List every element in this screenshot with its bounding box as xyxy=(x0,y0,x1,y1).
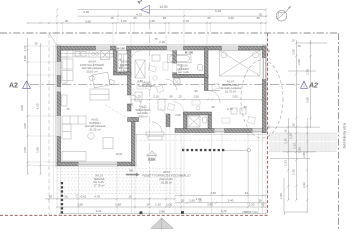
svg-text:2,70: 2,70 xyxy=(227,107,233,111)
BOUNDARY xyxy=(0,34,286,231)
svg-text:2,10: 2,10 xyxy=(153,95,159,99)
svg-text:2,08: 2,08 xyxy=(23,147,27,153)
svg-text:50: 50 xyxy=(49,195,53,199)
svg-text:20: 20 xyxy=(181,198,185,202)
tv board xyxy=(103,138,113,149)
wall left xyxy=(57,46,61,166)
svg-text:20,05 m²: 20,05 m² xyxy=(161,181,172,185)
svg-text:M 160: M 160 xyxy=(117,47,125,51)
door leaf lines xyxy=(131,91,220,105)
WINDOWS xyxy=(57,46,266,166)
window kitchen left xyxy=(57,62,61,75)
svg-text:2,05: 2,05 xyxy=(175,113,181,117)
svg-text:2,00: 2,00 xyxy=(23,55,27,61)
svg-text:2,88: 2,88 xyxy=(159,209,165,213)
svg-text:1,50: 1,50 xyxy=(193,95,199,99)
svg-text:3,60 m²: 3,60 m² xyxy=(138,114,148,118)
porch columns row xyxy=(182,149,224,151)
window gap bottom wall 2 xyxy=(253,129,263,133)
street pavement band xyxy=(269,133,337,152)
svg-text:40: 40 xyxy=(65,19,69,23)
hall small fixtures xyxy=(152,55,160,61)
svg-text:±0,00: ±0,00 xyxy=(116,152,123,156)
svg-text:25: 25 xyxy=(207,16,211,20)
DIMS-LEFT xyxy=(20,38,57,199)
WALLS xyxy=(57,46,266,166)
small window left wall xyxy=(57,87,61,92)
svg-text:30: 30 xyxy=(243,105,247,109)
gate triangle xyxy=(151,218,174,229)
svg-text:15: 15 xyxy=(66,107,70,111)
svg-text:25,01 m²: 25,01 m² xyxy=(86,69,97,73)
svg-text:25: 25 xyxy=(133,16,137,20)
svg-text:1,10: 1,10 xyxy=(23,45,27,51)
svg-text:21,05 m²: 21,05 m² xyxy=(89,127,100,131)
hall door arc 2 xyxy=(166,79,177,90)
svg-text:75: 75 xyxy=(137,95,141,99)
svg-text:1,23: 1,23 xyxy=(283,160,287,166)
svg-text:9,00: 9,00 xyxy=(20,105,24,111)
right dim hlines xyxy=(288,70,316,72)
wall kamra bottom xyxy=(114,72,132,75)
window bedroom top xyxy=(222,46,238,50)
svg-text:25: 25 xyxy=(163,16,167,20)
fence posts left column xyxy=(61,182,63,210)
window bedroom right xyxy=(262,58,266,79)
bath wc xyxy=(198,65,203,71)
bedroom door arc xyxy=(208,91,220,103)
svg-text:1,88: 1,88 xyxy=(137,79,143,83)
svg-text:15,75 m²: 15,75 m² xyxy=(225,89,236,93)
hob circles xyxy=(92,52,95,55)
svg-text:3,60: 3,60 xyxy=(228,16,234,20)
vestibule door arc xyxy=(152,122,162,132)
wall right xyxy=(262,46,266,133)
svg-text:30: 30 xyxy=(267,49,271,53)
svg-text:10: 10 xyxy=(198,198,202,202)
svg-text:6,70: 6,70 xyxy=(221,209,227,213)
svg-text:Jani Károly utca: Jani Károly utca xyxy=(343,122,347,149)
svg-text:2,80: 2,80 xyxy=(302,152,306,158)
leader diagonal top-left xyxy=(49,34,58,47)
svg-text:2,25: 2,25 xyxy=(149,19,155,23)
window bath top xyxy=(167,46,183,50)
armchair xyxy=(62,152,86,162)
section axis vertical xyxy=(149,8,151,215)
property boundary bottom (red) xyxy=(0,214,268,216)
sofa L living xyxy=(62,116,86,124)
svg-text:2,70: 2,70 xyxy=(183,19,189,23)
projection diagonal xyxy=(105,105,134,123)
gate post left xyxy=(140,211,143,214)
wall vestibule left jog xyxy=(128,118,139,122)
hall closet xyxy=(135,60,145,78)
terrace door bottom-left xyxy=(79,162,118,166)
svg-text:±0,00: ±0,00 xyxy=(127,103,134,107)
wall kamra left xyxy=(114,50,118,72)
terrace paving texture xyxy=(57,169,183,194)
wall vestibule right xyxy=(166,114,170,127)
right dim chain lower a xyxy=(287,118,289,200)
wall bottom right-wing xyxy=(175,129,266,133)
svg-text:KLÍMA: KLÍMA xyxy=(148,159,156,162)
svg-text:25: 25 xyxy=(178,95,182,99)
svg-text:3,60: 3,60 xyxy=(85,19,91,23)
svg-text:30: 30 xyxy=(64,195,68,199)
svg-text:1,00: 1,00 xyxy=(121,19,127,23)
svg-text:3,00: 3,00 xyxy=(23,123,27,129)
svg-text:1,50: 1,50 xyxy=(306,69,310,75)
MARKERS xyxy=(9,0,347,149)
svg-text:1,98: 1,98 xyxy=(279,193,283,199)
bedroom side tables xyxy=(231,108,237,114)
svg-text:5,40: 5,40 xyxy=(215,9,221,13)
outer contour lines xyxy=(56,45,267,167)
section marker top xyxy=(141,5,150,13)
section marker A2 right xyxy=(301,81,308,88)
svg-text:5%: 5% xyxy=(129,169,134,173)
FIXTURES xyxy=(61,51,260,162)
interior dim line hall xyxy=(131,99,262,101)
coffee table xyxy=(88,133,94,139)
svg-text:3,05: 3,05 xyxy=(232,95,238,99)
svg-text:90: 90 xyxy=(169,95,173,99)
bath tub xyxy=(168,55,192,63)
porch end post circle xyxy=(247,149,250,152)
svg-text:1,90: 1,90 xyxy=(298,147,302,153)
wall wc top xyxy=(184,112,212,115)
svg-text:1,45: 1,45 xyxy=(283,138,287,144)
svg-text:75: 75 xyxy=(154,37,158,41)
svg-text:2,68: 2,68 xyxy=(115,203,121,207)
svg-text:2,02: 2,02 xyxy=(302,182,306,188)
svg-text:1,05: 1,05 xyxy=(291,49,295,55)
svg-text:2,75 m²: 2,75 m² xyxy=(120,69,130,73)
DIMS-BOTTOM xyxy=(45,127,267,215)
svg-text:A2: A2 xyxy=(9,83,18,90)
svg-text:A2: A2 xyxy=(136,0,144,5)
svg-text:17,76 m²: 17,76 m² xyxy=(93,183,104,187)
svg-text:12: 12 xyxy=(245,191,249,195)
svg-text:1,10: 1,10 xyxy=(155,203,161,207)
wall kitchen-hall stub xyxy=(128,104,132,111)
right dim chain upper a xyxy=(295,40,297,200)
wc small xyxy=(203,117,208,123)
right dim hline top xyxy=(296,42,327,44)
svg-text:15: 15 xyxy=(283,129,287,133)
wall top xyxy=(57,46,266,50)
dining table xyxy=(92,72,110,88)
svg-text:30: 30 xyxy=(256,16,260,20)
entry step rects xyxy=(146,132,164,136)
kitchen sink xyxy=(75,52,80,57)
svg-text:5,00: 5,00 xyxy=(306,97,310,103)
svg-text:30: 30 xyxy=(34,42,38,46)
bath sink xyxy=(174,65,182,71)
hall door arc 1 xyxy=(131,95,141,105)
hall clutter xyxy=(131,50,255,123)
kamra shelves xyxy=(118,54,122,71)
svg-text:14,90: 14,90 xyxy=(160,5,168,9)
svg-text:3,40: 3,40 xyxy=(228,198,234,202)
svg-text:7,27 m²: 7,27 m² xyxy=(179,73,189,77)
svg-text:1,40: 1,40 xyxy=(291,169,295,175)
shower wc room xyxy=(188,116,200,127)
tree canopy dashed ellipse xyxy=(241,60,283,138)
bed X-box bedroom xyxy=(220,51,261,77)
svg-text:3,41: 3,41 xyxy=(96,209,102,213)
entry arrow xyxy=(147,151,158,156)
wall bath bottom xyxy=(173,74,208,77)
wall left-wing right xyxy=(131,118,135,166)
drain slope arrow xyxy=(126,173,140,177)
kitchen lower cabinets xyxy=(62,59,73,69)
svg-text:4,38: 4,38 xyxy=(83,10,89,14)
wall bath-bedroom xyxy=(204,48,208,78)
svg-text:1,10: 1,10 xyxy=(289,133,293,139)
svg-text:1,60: 1,60 xyxy=(189,198,195,202)
door kamra top xyxy=(117,46,127,50)
svg-text:16: 16 xyxy=(146,203,150,207)
kitchen left counter xyxy=(61,57,67,83)
svg-text:-0,02: -0,02 xyxy=(80,195,87,199)
svg-text:10: 10 xyxy=(291,39,295,43)
right dim chain lower c xyxy=(306,118,308,212)
svg-text:KÖZLEKEDŐ: KÖZLEKEDŐ xyxy=(138,83,156,88)
svg-text:1,00: 1,00 xyxy=(166,203,172,207)
right dim chain upper b xyxy=(310,40,312,128)
svg-text:2089/3 hrsz: 2089/3 hrsz xyxy=(242,210,258,214)
wall bedroom lower stub xyxy=(204,78,208,91)
svg-text:2,10: 2,10 xyxy=(159,40,165,44)
section line A2-A2 xyxy=(30,84,302,86)
door gap bath left wall xyxy=(173,64,177,73)
svg-text:2,68: 2,68 xyxy=(77,203,83,207)
wall kitchen-hall upper xyxy=(128,50,132,95)
svg-text:2,16: 2,16 xyxy=(293,143,297,149)
svg-text:15: 15 xyxy=(297,44,301,48)
fridge X-box xyxy=(101,51,110,60)
wall bottom-left xyxy=(57,162,135,166)
DIMS-RIGHT xyxy=(270,39,327,214)
svg-text:30: 30 xyxy=(291,123,295,127)
PORCH xyxy=(61,135,266,214)
property boundary right (red) xyxy=(267,34,269,216)
svg-text:2,00: 2,00 xyxy=(297,59,301,65)
svg-text:15: 15 xyxy=(110,16,114,20)
svg-text:4,60: 4,60 xyxy=(210,191,216,195)
DIMS-TOP xyxy=(26,5,267,46)
kamra shelf xyxy=(118,51,127,55)
setback dashed line left xyxy=(48,34,50,215)
dash-dot street line right xyxy=(338,33,340,230)
svg-text:2,10: 2,10 xyxy=(249,203,255,207)
window living left xyxy=(57,116,61,136)
svg-text:90: 90 xyxy=(194,89,198,93)
gate post right xyxy=(181,211,184,214)
wall wc left xyxy=(184,112,188,130)
wall hall-bath xyxy=(173,48,177,77)
svg-text:90: 90 xyxy=(211,105,215,109)
svg-text:4,75: 4,75 xyxy=(94,195,100,199)
svg-text:15: 15 xyxy=(128,195,132,199)
bath washer xyxy=(174,79,181,86)
svg-text:3,60: 3,60 xyxy=(207,203,213,207)
kitchen counter top run xyxy=(61,51,113,58)
kitchen island xyxy=(90,89,109,100)
svg-text:M 160: M 160 xyxy=(185,51,194,55)
svg-text:4,10: 4,10 xyxy=(36,103,40,109)
wall wc right xyxy=(208,115,212,130)
svg-text:1,50: 1,50 xyxy=(36,147,40,153)
dash-dot plot line top xyxy=(0,32,339,34)
porch slab edge lines xyxy=(135,134,266,136)
svg-text:A2: A2 xyxy=(308,82,318,89)
door gap bottom wall 1 xyxy=(215,129,225,133)
svg-text:4,72: 4,72 xyxy=(136,13,142,17)
svg-text:15: 15 xyxy=(261,203,265,207)
north symbol xyxy=(276,11,287,22)
svg-text:30: 30 xyxy=(267,125,271,129)
window kitchen top xyxy=(96,46,110,50)
